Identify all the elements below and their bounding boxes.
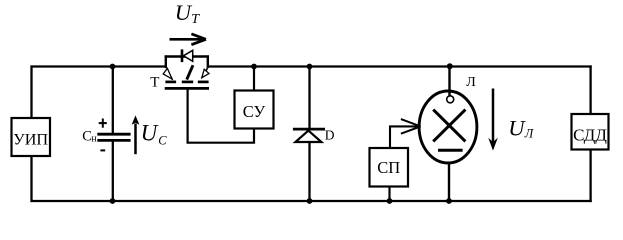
svg-text:T: T (191, 12, 200, 27)
wire lamp lower lead (448, 164, 450, 202)
svg-text:н: н (91, 134, 97, 145)
node junction dot bottom rail at diode (307, 198, 313, 204)
lamp X mark (433, 110, 465, 142)
diode D triangle (295, 131, 321, 142)
node junction dot top rail at capacitor (110, 64, 116, 70)
transistor channel bar middle (182, 81, 193, 84)
svg-text:СУ: СУ (243, 102, 266, 121)
transistor left lead hollow arrowhead (163, 68, 172, 79)
transistor gate bar (165, 87, 209, 90)
node junction dot bottom rail at capacitor (110, 198, 116, 204)
wire diode upper lead (308, 66, 310, 130)
wire right vertical upper (589, 65, 591, 114)
node junction dot top rail at СУ (251, 64, 257, 70)
wire left vertical upper (30, 65, 32, 118)
transistor left lead slant (166, 69, 172, 80)
arrow into lamp (open head) (401, 119, 421, 134)
lamp lower electrode bar (438, 149, 463, 152)
voltage arrow U_Л (488, 89, 535, 151)
svg-text:U: U (141, 121, 159, 146)
wire СУ top lead (253, 66, 255, 91)
transistor right lead hollow arrowhead (202, 69, 209, 77)
wire top rail left segment (31, 65, 167, 67)
voltage arrow U_C (132, 115, 168, 154)
node junction dot top rail at diode (307, 64, 313, 70)
transistor channel bar right (198, 81, 209, 84)
node junction dot top rail at lamp (447, 63, 453, 69)
wire gate to СУ (188, 89, 254, 143)
block U3 СП (current setter) (370, 148, 409, 187)
wire capacitor upper lead (112, 66, 114, 134)
svg-text:УИП: УИП (13, 131, 48, 149)
wire bottom rail (31, 200, 592, 202)
transistor channel bar left (165, 81, 176, 84)
block U4 СДД (current sensor) (572, 114, 609, 150)
label minus polarity (100, 149, 105, 151)
svg-text:C: C (158, 133, 167, 147)
wire capacitor lower lead (112, 141, 114, 203)
transistor top bar (165, 55, 209, 58)
wire left vertical lower (30, 156, 32, 203)
voltage arrow U_T above transistor (170, 0, 206, 45)
svg-text:U: U (508, 115, 526, 140)
label plus polarity (99, 119, 107, 128)
svg-text:СДД: СДД (573, 125, 607, 144)
label Cн value (82, 129, 97, 145)
transistor T (MOSFET with body diode) (150, 49, 209, 90)
node junction dot bottom rail at lamp (446, 198, 452, 204)
wire top rail right segment (208, 65, 592, 67)
svg-text:Л: Л (524, 127, 535, 141)
wire lamp upper lead (448, 66, 450, 96)
svg-text:СП: СП (377, 158, 400, 177)
svg-text:D: D (325, 127, 335, 142)
body diode VD triangle (183, 50, 192, 61)
svg-text:U: U (175, 0, 193, 25)
wire СП upper lead (390, 126, 418, 148)
wire transistor right stub (207, 55, 209, 68)
wire СП lower lead (388, 187, 390, 203)
node junction dot bottom rail at СП (387, 198, 393, 204)
wire transistor left stub (165, 55, 167, 68)
capacitor C1 Cн plates (97, 134, 130, 140)
lamp Л envelope ellipse (419, 91, 477, 163)
body diode cathode bar (181, 49, 184, 62)
svg-text:Т: Т (150, 74, 159, 90)
transistor right lead slant (202, 68, 208, 78)
wire diode lower lead (308, 142, 310, 202)
svg-text:Л: Л (466, 75, 476, 90)
transistor substrate slash (187, 65, 193, 79)
diode D cathode bar (293, 128, 325, 131)
lamp electrode small circle (447, 96, 454, 103)
block U2 СУ (control unit) (235, 91, 274, 129)
block U1 УИП (power supply) (12, 118, 51, 156)
wire right vertical lower (589, 149, 591, 202)
